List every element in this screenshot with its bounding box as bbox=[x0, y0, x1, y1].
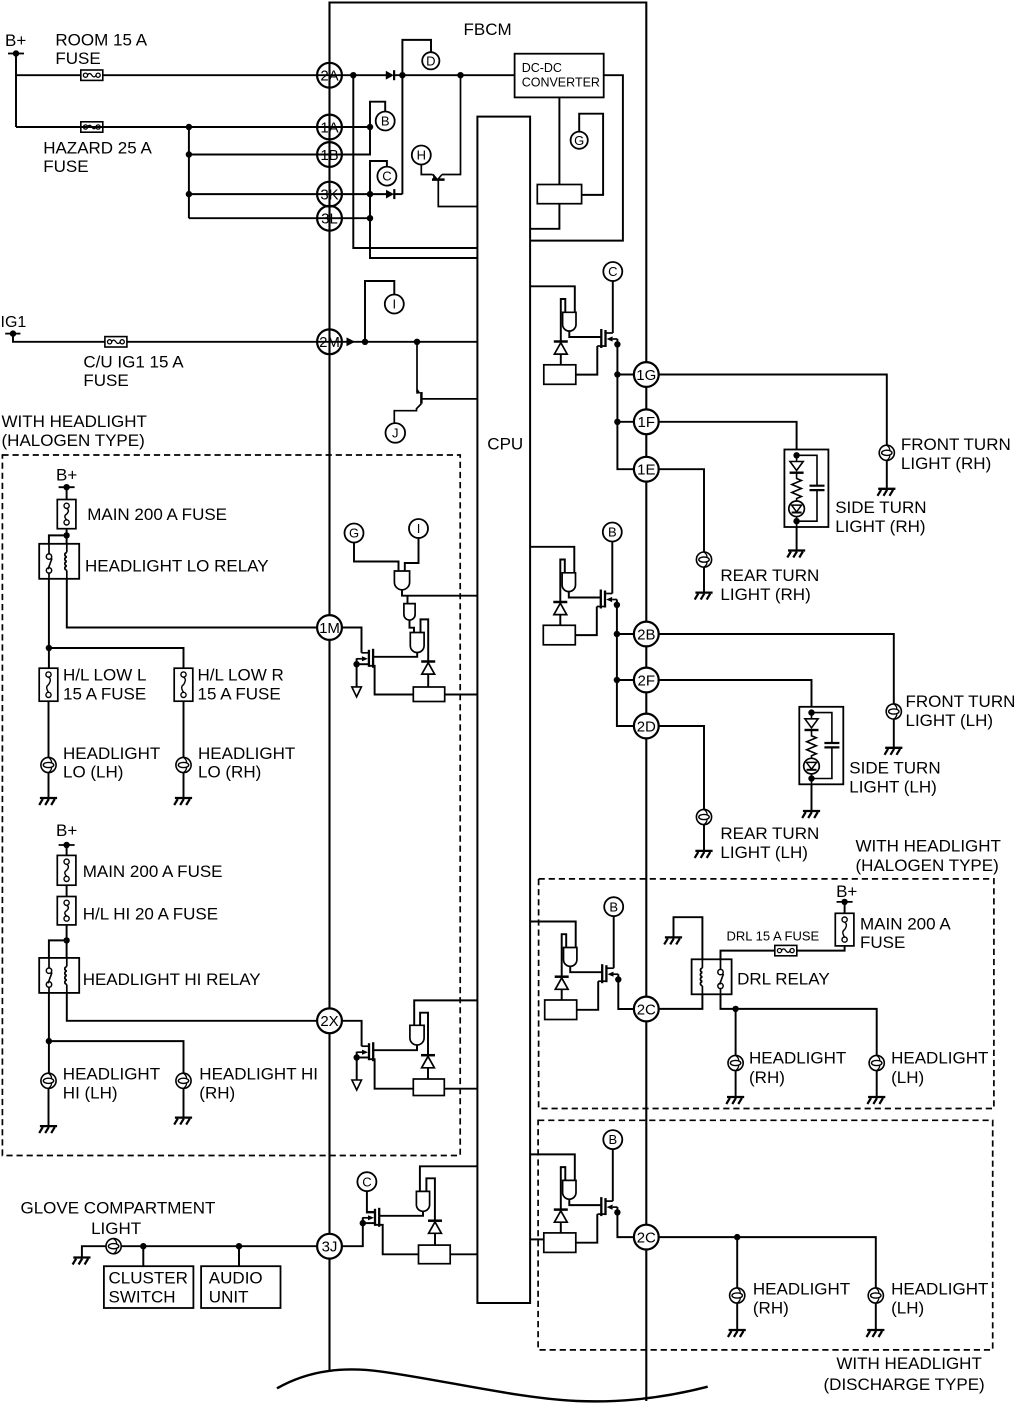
wire rect to mosfet hal2C bbox=[577, 981, 599, 1010]
wire to 2B bbox=[617, 633, 635, 635]
svg-text:DC-DC: DC-DC bbox=[522, 61, 562, 75]
wire fuse to bulb LO RH bbox=[183, 701, 185, 757]
svg-text:FUSE: FUSE bbox=[43, 157, 88, 176]
HAZARD 25 A FUSE label bbox=[43, 138, 152, 175]
B+ terminal HI bbox=[59, 842, 75, 848]
bulb front turn RH bbox=[879, 445, 894, 460]
wire gate3 out to mosfet gate bbox=[373, 653, 417, 657]
driver rect hal2C bbox=[545, 1000, 577, 1020]
ground glove bbox=[73, 1258, 91, 1265]
clamp diode turnLH bbox=[553, 602, 567, 615]
mosfet 2X bbox=[357, 1042, 373, 1061]
circle D bbox=[422, 52, 439, 69]
svg-text:(HALOGEN TYPE): (HALOGEN TYPE) bbox=[2, 431, 145, 450]
wire diode to rect 2X bbox=[427, 1068, 429, 1079]
wire relay switch down HI bbox=[48, 993, 50, 1041]
svg-text:WITH HEADLIGHT: WITH HEADLIGHT bbox=[856, 837, 1001, 856]
svg-text:WITH HEADLIGHT: WITH HEADLIGHT bbox=[836, 1354, 981, 1373]
wire 1A down to 1B bbox=[341, 127, 370, 155]
svg-text:GLOVE COMPARTMENT: GLOVE COMPARTMENT bbox=[21, 1199, 216, 1218]
circle G top bbox=[571, 132, 588, 149]
ground HI RH bbox=[174, 1118, 192, 1125]
bulb front turn LH bbox=[886, 704, 901, 719]
wire left fuse LO bbox=[48, 648, 50, 668]
FRONT TURN LIGHT RH label bbox=[901, 435, 1011, 473]
svg-text:H: H bbox=[417, 148, 426, 163]
wire fuse to relay HI bbox=[66, 925, 68, 958]
circle B dis2C bbox=[603, 1130, 622, 1149]
node above relay LO bbox=[63, 532, 69, 538]
wire bulb to gnd LO LH bbox=[48, 773, 50, 798]
ground front turn RH bbox=[878, 489, 896, 496]
wire down to audio unit bbox=[238, 1246, 240, 1266]
node source turnRH bbox=[614, 341, 620, 347]
svg-text:B+: B+ bbox=[5, 31, 26, 50]
DC-DC converter box bbox=[515, 54, 604, 98]
connector 1B bbox=[317, 142, 342, 167]
wire 2F to side turn LH bbox=[658, 680, 812, 707]
mosfet 1M bbox=[357, 649, 373, 668]
mosfet turnRH bbox=[597, 329, 617, 348]
wire gate hook to diode turnRH bbox=[561, 299, 566, 342]
svg-text:LIGHT: LIGHT bbox=[91, 1219, 141, 1238]
wire gate out to mosfet gate turnLH bbox=[569, 591, 601, 598]
fuse H/L LOW L bbox=[39, 668, 58, 701]
wire bulb to gnd halogen RH bbox=[735, 1071, 737, 1097]
wire I to gate1 bbox=[405, 538, 419, 571]
svg-text:WITH HEADLIGHT: WITH HEADLIGHT bbox=[2, 412, 147, 431]
node 2B bbox=[614, 631, 620, 637]
svg-text:H/L HI 20 A FUSE: H/L HI 20 A FUSE bbox=[83, 905, 218, 924]
svg-text:HEADLIGHT: HEADLIGHT bbox=[749, 1049, 846, 1068]
svg-text:C: C bbox=[382, 169, 391, 184]
wire hook to switch HI bbox=[49, 940, 67, 958]
HEADLIGHT HI (LH) label bbox=[63, 1064, 160, 1102]
svg-text:FRONT TURN: FRONT TURN bbox=[906, 692, 1016, 711]
connector 1F bbox=[634, 409, 659, 434]
wire hook to I bbox=[365, 281, 394, 342]
circle C top bbox=[377, 167, 396, 186]
wire B+ down to hazard row bbox=[15, 54, 17, 128]
wire diode to rect 1M bbox=[427, 674, 429, 687]
wire relay switch down LO bbox=[48, 579, 50, 648]
wire B to mosfet drain dis2C bbox=[612, 1149, 614, 1201]
svg-text:(DISCHARGE TYPE): (DISCHARGE TYPE) bbox=[824, 1375, 985, 1394]
svg-text:B: B bbox=[608, 525, 617, 540]
svg-text:C: C bbox=[608, 264, 617, 279]
wire assembly to gnd side RH bbox=[796, 527, 798, 551]
wire bulb to gnd rear LH bbox=[703, 825, 705, 851]
svg-text:1B: 1B bbox=[320, 147, 338, 164]
dashed box halogen right bbox=[539, 879, 994, 1109]
SIDE TURN LIGHT RH label bbox=[835, 498, 926, 536]
wire source down turnLH bbox=[616, 600, 618, 605]
clamp diode turnRH bbox=[554, 342, 568, 355]
wire body stub 3J bbox=[363, 1222, 375, 1224]
mosfet hal2C bbox=[598, 964, 618, 983]
svg-text:I: I bbox=[392, 297, 396, 312]
wire glove row to 3J bbox=[121, 1245, 317, 1247]
svg-text:FBCM: FBCM bbox=[464, 20, 512, 39]
connector 2X bbox=[317, 1008, 342, 1033]
svg-text:(LH): (LH) bbox=[891, 1298, 924, 1317]
wire hook to B bbox=[370, 102, 385, 127]
bus wire turnLH bbox=[617, 605, 634, 726]
gate 2X bbox=[410, 1025, 424, 1045]
wire 1G to front turn RH bbox=[658, 375, 887, 446]
SIDE TURN LIGHT LH label bbox=[849, 759, 940, 797]
svg-text:CONVERTER: CONVERTER bbox=[522, 76, 600, 90]
wire channel bottom to rect 1M bbox=[369, 666, 413, 695]
svg-text:3J: 3J bbox=[322, 1239, 338, 1256]
wire bulb to gnd halogen LH bbox=[876, 1071, 878, 1097]
node discharge headlight RH bbox=[734, 1234, 740, 1240]
clamp diode 1M bbox=[421, 662, 435, 675]
ground DRL coil bbox=[664, 937, 682, 944]
wire 2A node down to CPU bbox=[353, 75, 477, 248]
svg-text:HEADLIGHT: HEADLIGHT bbox=[63, 744, 160, 763]
driver rect 2X bbox=[413, 1079, 444, 1096]
svg-text:B: B bbox=[609, 899, 618, 914]
wire 1M to mosfet drain bbox=[342, 628, 362, 653]
wire gate out to mosfet 3J bbox=[379, 1211, 423, 1216]
svg-text:H/L LOW R: H/L LOW R bbox=[198, 666, 284, 685]
node 2M-b bbox=[414, 339, 420, 345]
DRL relay bbox=[692, 959, 732, 994]
side turn assembly box sideLH bbox=[799, 707, 843, 785]
svg-text:HEADLIGHT LO RELAY: HEADLIGHT LO RELAY bbox=[85, 557, 269, 576]
circle C 3J bbox=[357, 1172, 376, 1191]
wire 3K inside bbox=[395, 193, 403, 195]
node HI lamp branch bbox=[46, 1038, 52, 1044]
HEADLIGHT HI (RH) label bbox=[199, 1064, 318, 1102]
node 2A-a bbox=[350, 72, 356, 78]
node source 2X bbox=[354, 1054, 360, 1060]
svg-text:LIGHT (RH): LIGHT (RH) bbox=[835, 517, 925, 536]
bulb HEADLIGHT LO LH bbox=[41, 757, 56, 772]
H/L LOW L label bbox=[63, 666, 146, 704]
bulb headlight halogen LH bbox=[869, 1055, 884, 1070]
bulb HEADLIGHT LO RH bbox=[176, 757, 191, 772]
resistor sideRH bbox=[792, 473, 802, 502]
wire hook to C bbox=[370, 161, 387, 194]
wire to 3K bbox=[189, 193, 386, 195]
ground discharge LH bbox=[867, 1330, 885, 1337]
connector 2M bbox=[317, 329, 342, 354]
circle B turnLH bbox=[603, 523, 622, 542]
node top sideRH bbox=[793, 452, 799, 458]
node bottom sideLH bbox=[808, 775, 814, 781]
gate 3J bbox=[416, 1191, 429, 1211]
wire 2B to front turn LH bbox=[658, 634, 894, 704]
wire bulb to gnd HI LH bbox=[48, 1088, 50, 1126]
REAR TURN LIGHT LH label bbox=[720, 824, 819, 862]
wire down to cluster switch bbox=[142, 1246, 144, 1266]
svg-text:LIGHT (RH): LIGHT (RH) bbox=[901, 454, 991, 473]
wire bulb to gnd rear RH bbox=[703, 567, 705, 592]
wire gate out to mosfet 2X bbox=[373, 1045, 417, 1050]
svg-text:2A: 2A bbox=[320, 68, 338, 85]
wire 1F to side turn RH bbox=[658, 422, 797, 450]
wire CPU to gate 2X bbox=[414, 1000, 477, 1025]
clamp diode hal2C bbox=[555, 977, 569, 990]
wire bulb to gnd HI RH bbox=[183, 1088, 185, 1117]
node LO lamp branch bbox=[46, 645, 52, 651]
wire CPU to gate turnRH bbox=[530, 286, 575, 312]
svg-text:(HALOGEN TYPE): (HALOGEN TYPE) bbox=[856, 856, 999, 875]
fuse C/U IG1 15A bbox=[105, 337, 127, 347]
driver rect turnRH bbox=[544, 365, 576, 385]
wire coil to gnd DRL bbox=[674, 917, 703, 959]
clamp diode 3J bbox=[428, 1221, 442, 1234]
circle B hal2C bbox=[604, 897, 623, 916]
node 3L-in bbox=[367, 215, 373, 221]
wire down to bulb discharge RH bbox=[736, 1237, 738, 1288]
wire hook to D bbox=[402, 40, 431, 75]
HEADLIGHT (RH) discharge label bbox=[753, 1279, 850, 1317]
dashed box with headlight halogen left bbox=[2, 455, 460, 1156]
wire source down dis2C bbox=[616, 1207, 618, 1212]
node 1B branch bbox=[186, 151, 192, 157]
gate dis2C bbox=[563, 1180, 576, 1199]
circle B top bbox=[376, 112, 395, 131]
wire to 1F bbox=[617, 421, 635, 423]
fuse ROOM 15A bbox=[81, 70, 103, 80]
svg-text:FUSE: FUSE bbox=[83, 371, 128, 390]
bulb HEADLIGHT HI LH bbox=[41, 1073, 56, 1088]
diode D1 on 2A line bbox=[386, 70, 394, 80]
capacitor branch sideLH bbox=[812, 713, 840, 779]
wire 2C to relay coil bbox=[658, 994, 703, 1009]
mosfet dis2C bbox=[597, 1197, 617, 1216]
connector 2B bbox=[634, 622, 659, 647]
wire CPU to gate 3J bbox=[420, 1166, 478, 1191]
wire hazard branch down bbox=[188, 127, 190, 218]
driver rect dis2C bbox=[544, 1233, 576, 1253]
bus wire dis2C bbox=[617, 1212, 635, 1237]
svg-text:LIGHT (LH): LIGHT (LH) bbox=[720, 843, 808, 862]
AUDIO UNIT box bbox=[201, 1266, 280, 1308]
node 2A-c bbox=[457, 72, 463, 78]
svg-text:2D: 2D bbox=[637, 718, 656, 735]
node source 3J bbox=[360, 1220, 366, 1226]
ROOM 15 A FUSE label bbox=[55, 31, 147, 69]
wire bulb to gnd discharge LH bbox=[875, 1303, 877, 1330]
svg-text:HEADLIGHT: HEADLIGHT bbox=[753, 1279, 850, 1298]
HEADLIGHT (RH) halogen label bbox=[749, 1049, 846, 1088]
wire assembly to gnd side LH bbox=[811, 784, 813, 811]
svg-text:FUSE: FUSE bbox=[55, 49, 100, 68]
svg-text:HI (LH): HI (LH) bbox=[63, 1083, 118, 1102]
node source 1M bbox=[353, 661, 359, 667]
wire diode to rect turnLH bbox=[559, 615, 561, 626]
bus wire turnRH bbox=[617, 344, 634, 469]
with headlight discharge label bbox=[824, 1354, 985, 1394]
fuse H/L HI 20A bbox=[57, 897, 76, 925]
wire block to CPU bbox=[530, 204, 559, 229]
svg-text:1A: 1A bbox=[320, 119, 338, 136]
bulb glove compartment bbox=[106, 1239, 121, 1254]
svg-text:LIGHT (LH): LIGHT (LH) bbox=[849, 778, 937, 797]
svg-text:B+: B+ bbox=[56, 821, 77, 840]
clamp diode dis2C bbox=[554, 1210, 568, 1223]
svg-text:B: B bbox=[608, 1132, 617, 1147]
wire rect to mosfet dis2C bbox=[576, 1214, 598, 1243]
wire diode to rect 3J bbox=[434, 1233, 436, 1245]
wire C to mosfet drain turnRH bbox=[612, 281, 614, 333]
wire to 1G bbox=[617, 374, 635, 376]
ground side turn LH bbox=[802, 811, 820, 818]
svg-text:1G: 1G bbox=[636, 367, 656, 384]
wire G to gate1 bbox=[354, 542, 399, 571]
ground discharge RH bbox=[728, 1330, 746, 1337]
fuse HAZARD 25A bbox=[81, 122, 103, 132]
svg-text:LIGHT (RH): LIGHT (RH) bbox=[720, 585, 810, 604]
svg-text:G: G bbox=[349, 526, 359, 541]
connector 1M bbox=[317, 615, 342, 640]
connector 2F bbox=[634, 668, 659, 693]
with headlight halogen label right bbox=[856, 837, 1001, 876]
svg-text:HAZARD 25 A: HAZARD 25 A bbox=[43, 138, 152, 157]
wire 2C to headlights discharge bbox=[658, 1237, 876, 1288]
wire bulb to gnd discharge RH bbox=[736, 1303, 738, 1330]
ground LO RH bbox=[174, 798, 192, 805]
connector 3J bbox=[317, 1234, 342, 1259]
wire between fuses HI bbox=[66, 885, 68, 896]
fuse MAIN 200A DRL bbox=[835, 913, 854, 946]
svg-text:HEADLIGHT: HEADLIGHT bbox=[891, 1049, 988, 1068]
transistor H bbox=[421, 75, 477, 206]
wire body stub 1M bbox=[357, 663, 369, 665]
ground rear turn RH bbox=[695, 593, 713, 600]
wire fuse to relay LO bbox=[66, 529, 68, 544]
svg-text:MAIN 200 A FUSE: MAIN 200 A FUSE bbox=[83, 862, 223, 881]
B+ terminal LO bbox=[59, 484, 75, 490]
wire bulb to gnd LO RH bbox=[183, 773, 185, 798]
HEADLIGHT LO (RH) label bbox=[198, 744, 295, 782]
node 3K branch bbox=[186, 191, 192, 197]
connector 3K bbox=[317, 182, 342, 207]
node 1G bbox=[614, 371, 620, 377]
wire CPU to gate hal2C bbox=[530, 922, 576, 948]
ground front turn LH bbox=[885, 748, 903, 755]
svg-text:2C: 2C bbox=[637, 1001, 656, 1018]
wire rect to CPU 3J bbox=[450, 1253, 477, 1255]
ground arrow 2X bbox=[352, 1080, 362, 1090]
B+ terminal DRL bbox=[837, 899, 853, 905]
wire B+ to main fuse HI bbox=[66, 845, 68, 855]
fuse H/L LOW R bbox=[174, 668, 193, 701]
svg-text:SIDE TURN: SIDE TURN bbox=[835, 498, 926, 517]
node 2A-b bbox=[399, 72, 405, 78]
node 1A-in bbox=[367, 124, 373, 130]
svg-text:1E: 1E bbox=[637, 462, 655, 479]
bulb rear turn LH bbox=[696, 809, 711, 824]
wire fuse to bulb LO LH bbox=[48, 701, 50, 757]
circle G 1M bbox=[345, 524, 364, 543]
driver rect 3J bbox=[419, 1245, 451, 1264]
wire body stub 2X bbox=[357, 1057, 369, 1059]
connector 1E bbox=[634, 457, 659, 482]
svg-text:D: D bbox=[426, 53, 435, 68]
bulb headlight halogen RH bbox=[728, 1055, 743, 1070]
fuse MAIN 200A HI bbox=[57, 855, 76, 885]
svg-text:2F: 2F bbox=[638, 672, 656, 689]
svg-text:AUDIO: AUDIO bbox=[209, 1268, 263, 1287]
svg-text:ROOM 15 A: ROOM 15 A bbox=[55, 31, 147, 50]
wire down to bulb halogen RH bbox=[735, 1009, 737, 1056]
svg-text:2X: 2X bbox=[320, 1013, 338, 1030]
node 2F bbox=[614, 677, 620, 683]
ground rear turn LH bbox=[695, 851, 713, 858]
driver rect 1M bbox=[413, 687, 444, 702]
node cluster switch bbox=[140, 1243, 146, 1249]
svg-text:FRONT TURN: FRONT TURN bbox=[901, 435, 1011, 454]
IG1 terminal bbox=[5, 330, 20, 336]
svg-text:DRL 15 A FUSE: DRL 15 A FUSE bbox=[727, 929, 820, 944]
wire gate hook to diode 2X bbox=[420, 1013, 428, 1055]
wire gate hook to diode turnLH bbox=[560, 560, 565, 603]
diode sideLH bbox=[805, 713, 819, 730]
diode sideRH bbox=[790, 455, 804, 472]
wire mosfet source to gnd 1M bbox=[356, 658, 358, 687]
svg-text:MAIN 200 A FUSE: MAIN 200 A FUSE bbox=[87, 505, 227, 524]
svg-text:IG1: IG1 bbox=[1, 314, 27, 331]
fuse DRL 15A bbox=[775, 945, 797, 955]
node 2M-a bbox=[362, 339, 368, 345]
ground arrow 1M bbox=[352, 687, 362, 697]
wire to 2F bbox=[617, 679, 635, 681]
node hazard branch bbox=[186, 124, 192, 130]
svg-text:3K: 3K bbox=[320, 186, 338, 203]
ground HI LH bbox=[39, 1126, 57, 1133]
svg-text:MAIN 200 A: MAIN 200 A bbox=[860, 915, 951, 934]
diode D2 on 3K line bbox=[386, 189, 394, 199]
node bottom sideRH bbox=[793, 518, 799, 524]
svg-text:FUSE: FUSE bbox=[860, 933, 905, 952]
wire gate1 out and CPU line 1M bbox=[402, 590, 477, 596]
wire diode to rect hal2C bbox=[561, 989, 563, 1000]
driver block rect G bbox=[537, 185, 581, 204]
svg-text:(LH): (LH) bbox=[891, 1068, 924, 1087]
wire branch to right fuse LO bbox=[49, 648, 184, 668]
connector 2C discharge bbox=[634, 1225, 659, 1250]
wire DC-DC right loop to CPU bbox=[530, 75, 623, 240]
wire 3K chain down to CPU bbox=[370, 194, 477, 258]
svg-text:LIGHT (LH): LIGHT (LH) bbox=[906, 711, 994, 730]
svg-text:HEADLIGHT: HEADLIGHT bbox=[63, 1064, 160, 1083]
wire rect to mosfet turnRH bbox=[576, 346, 598, 375]
node source hal2C bbox=[615, 976, 621, 982]
wire B+ to main fuse DRL bbox=[844, 902, 846, 913]
gate3 1M bbox=[410, 633, 424, 653]
wire hook to switch LO bbox=[49, 535, 67, 543]
wire 2X to mosfet drain bbox=[342, 1021, 362, 1046]
driver rect turnLH bbox=[543, 625, 575, 645]
ground halogen RH bbox=[726, 1097, 744, 1104]
wire relay coil to 1M bbox=[67, 579, 317, 628]
wire gate3 hook to diode bbox=[421, 619, 429, 661]
svg-text:SWITCH: SWITCH bbox=[109, 1288, 176, 1307]
wire 2A-b down to 3K diode line bbox=[401, 75, 403, 194]
ground halogen LH bbox=[867, 1097, 885, 1104]
svg-text:CLUSTER: CLUSTER bbox=[109, 1268, 188, 1287]
with headlight halogen label left bbox=[2, 412, 147, 450]
svg-text:G: G bbox=[574, 133, 584, 148]
wire branch to bulb HI RH bbox=[49, 1041, 184, 1073]
node 1F bbox=[614, 419, 620, 425]
wire relay coil to 2X bbox=[67, 993, 317, 1021]
